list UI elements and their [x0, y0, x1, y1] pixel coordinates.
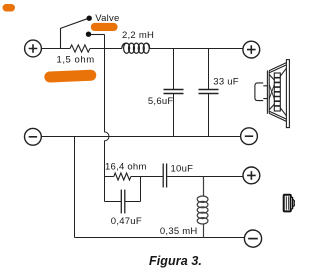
terminal + woofer right: [243, 41, 260, 58]
wire minus rail: [41, 136, 240, 138]
wire 10uF to + tweeter terminal: [167, 176, 243, 178]
capacitor C2 33 uF branch: [199, 49, 219, 137]
svg-text:0,35 mH: 0,35 mH: [160, 226, 198, 237]
svg-text:1,5 ohm: 1,5 ohm: [57, 54, 95, 65]
capacitor C3 10uF: [163, 164, 166, 188]
highlight under 1,5 ohm: [44, 70, 96, 83]
wire rail to 10uF: [141, 176, 164, 178]
inductor L2 0,35 mH: [197, 177, 208, 238]
terminal - input left: [25, 128, 42, 145]
woofer speaker: [255, 60, 290, 128]
svg-text:Valve: Valve: [95, 13, 119, 24]
wire inductor to + terminal: [150, 48, 243, 50]
svg-text:10uF: 10uF: [171, 163, 194, 174]
wire tap vertical from switch to lower section with hop: [105, 35, 110, 202]
svg-text:0,47uF: 0,47uF: [111, 216, 142, 227]
inductor L1 2,2 mH: [122, 43, 150, 53]
highlight over Valve: [91, 23, 118, 31]
resistor R1 1,5 ohm: [70, 45, 90, 52]
wire resistor R2 to right vertical: [131, 176, 141, 178]
highlight corner mark: [3, 4, 16, 12]
svg-text:33 uF: 33 uF: [213, 76, 239, 87]
switch S1 Valve: [61, 19, 105, 49]
svg-text:2,2 mH: 2,2 mH: [122, 30, 154, 41]
tweeter speaker: [284, 195, 295, 212]
terminal + tweeter right: [243, 167, 260, 184]
wire left drop to bottom rail: [74, 137, 76, 238]
switch contact dot lower: [86, 32, 91, 37]
terminal - woofer right: [241, 128, 258, 145]
wire parallel box right side: [140, 177, 142, 202]
resistor R2 16,4 ohm: [114, 173, 131, 180]
svg-text:5,6uF: 5,6uF: [148, 96, 174, 107]
terminal - tweeter right: [244, 230, 261, 247]
wire second section rail left: [105, 176, 114, 178]
wire bottom rail: [75, 237, 245, 239]
svg-text:Figura 3.: Figura 3.: [149, 254, 202, 268]
terminal + input left: [25, 40, 42, 57]
wire top rail left: [41, 48, 70, 50]
switch contact dot upper: [87, 16, 92, 21]
wire resistor to inductor: [90, 48, 122, 50]
capacitor C1 5,6uF branch: [164, 49, 184, 137]
capacitor C4 0,47uF: [121, 190, 125, 214]
svg-text:16,4 ohm: 16,4 ohm: [105, 161, 147, 172]
wire parallel box bottom rail: [105, 201, 141, 203]
